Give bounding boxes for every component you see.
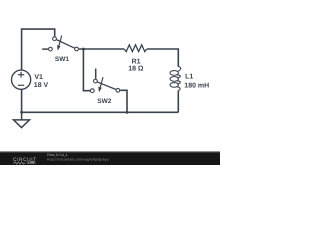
node A junction dot (SW2 branch from main wire) [82,48,85,51]
footer CircuitLab logo: resistor squiggle + LAB [13,162,26,164]
SW2 actuator arrow [100,77,103,88]
SW2 top stub wire [95,69,97,79]
svg-text:http://circuitlab.com/xapfy/lp: http://circuitlab.com/xapfy/lpsqr6yy [47,157,109,161]
svg-text:L1: L1 [185,74,193,81]
node junction dot at ground tap on bottom rail [20,111,23,114]
ground [14,112,30,127]
SW1 left terminal [49,47,53,51]
wire bottom rail [22,111,179,113]
SW1 actuator arrowhead [57,45,61,51]
switch SW1 [42,36,78,51]
node junction dot at SW2 output on bottom rail [126,111,129,114]
svg-text:LAB: LAB [28,161,36,165]
inductor L1 [170,67,181,91]
SW2 lever [97,82,116,90]
voltage source V1 [12,70,31,89]
svg-text:R1: R1 [132,59,141,66]
svg-text:V1: V1 [34,74,43,81]
switch SW2 [90,69,119,93]
wire V1 bottom to bottom rail [21,89,23,112]
wire R1 right to top-right corner and down to L1 [147,49,179,67]
SW1 top terminal [53,37,57,41]
wire L1 bottom down to bottom-right corner [177,91,179,113]
SW1 lever [56,40,74,49]
SW1 common terminal [75,47,79,51]
footer bar [0,151,220,165]
wire SW1 common to R1 left [79,48,124,50]
SW2 common terminal [116,88,120,92]
SW2 left terminal [90,89,94,93]
SW1 actuator arrow [59,36,62,47]
SW2 actuator arrowhead [98,87,102,93]
wire branch from node A down to SW2 left [83,49,90,91]
wire SW2 common right and down to bottom rail [120,90,127,112]
SW1 left stub wire [42,48,48,50]
SW2 top terminal [94,79,98,83]
resistor R1 [124,45,147,52]
svg-text:18 V: 18 V [34,82,49,89]
svg-text:18 Ω: 18 Ω [128,66,144,73]
svg-text:SW1: SW1 [55,56,69,63]
wire from V1 top up and right to SW1 [22,29,55,70]
svg-text:180 mH: 180 mH [184,83,209,90]
svg-text:SW2: SW2 [97,98,111,105]
